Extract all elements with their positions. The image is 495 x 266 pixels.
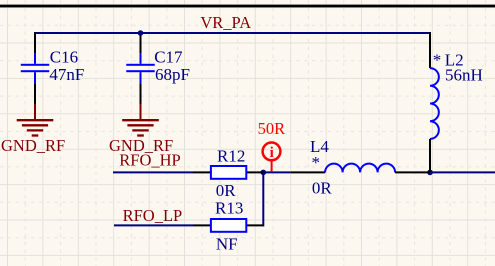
svg-text:VR_PA: VR_PA xyxy=(200,13,251,32)
svg-text:47nF: 47nF xyxy=(49,65,84,84)
svg-text:C16: C16 xyxy=(50,47,78,66)
svg-text:RFO_LP: RFO_LP xyxy=(123,206,183,225)
svg-text:i: i xyxy=(270,145,274,161)
svg-text:0R: 0R xyxy=(216,181,237,200)
svg-text:50R: 50R xyxy=(258,119,286,138)
svg-text:0R: 0R xyxy=(312,178,333,197)
svg-text:*: * xyxy=(433,51,442,70)
svg-text:C17: C17 xyxy=(154,47,183,66)
svg-text:*: * xyxy=(312,153,321,172)
svg-text:R12: R12 xyxy=(217,146,245,165)
svg-text:R13: R13 xyxy=(215,198,243,217)
svg-text:68pF: 68pF xyxy=(155,65,190,84)
svg-text:56nH: 56nH xyxy=(445,66,483,85)
svg-text:RFO_HP: RFO_HP xyxy=(119,151,180,170)
svg-text:NF: NF xyxy=(216,234,238,253)
svg-text:GND_RF: GND_RF xyxy=(1,136,65,155)
